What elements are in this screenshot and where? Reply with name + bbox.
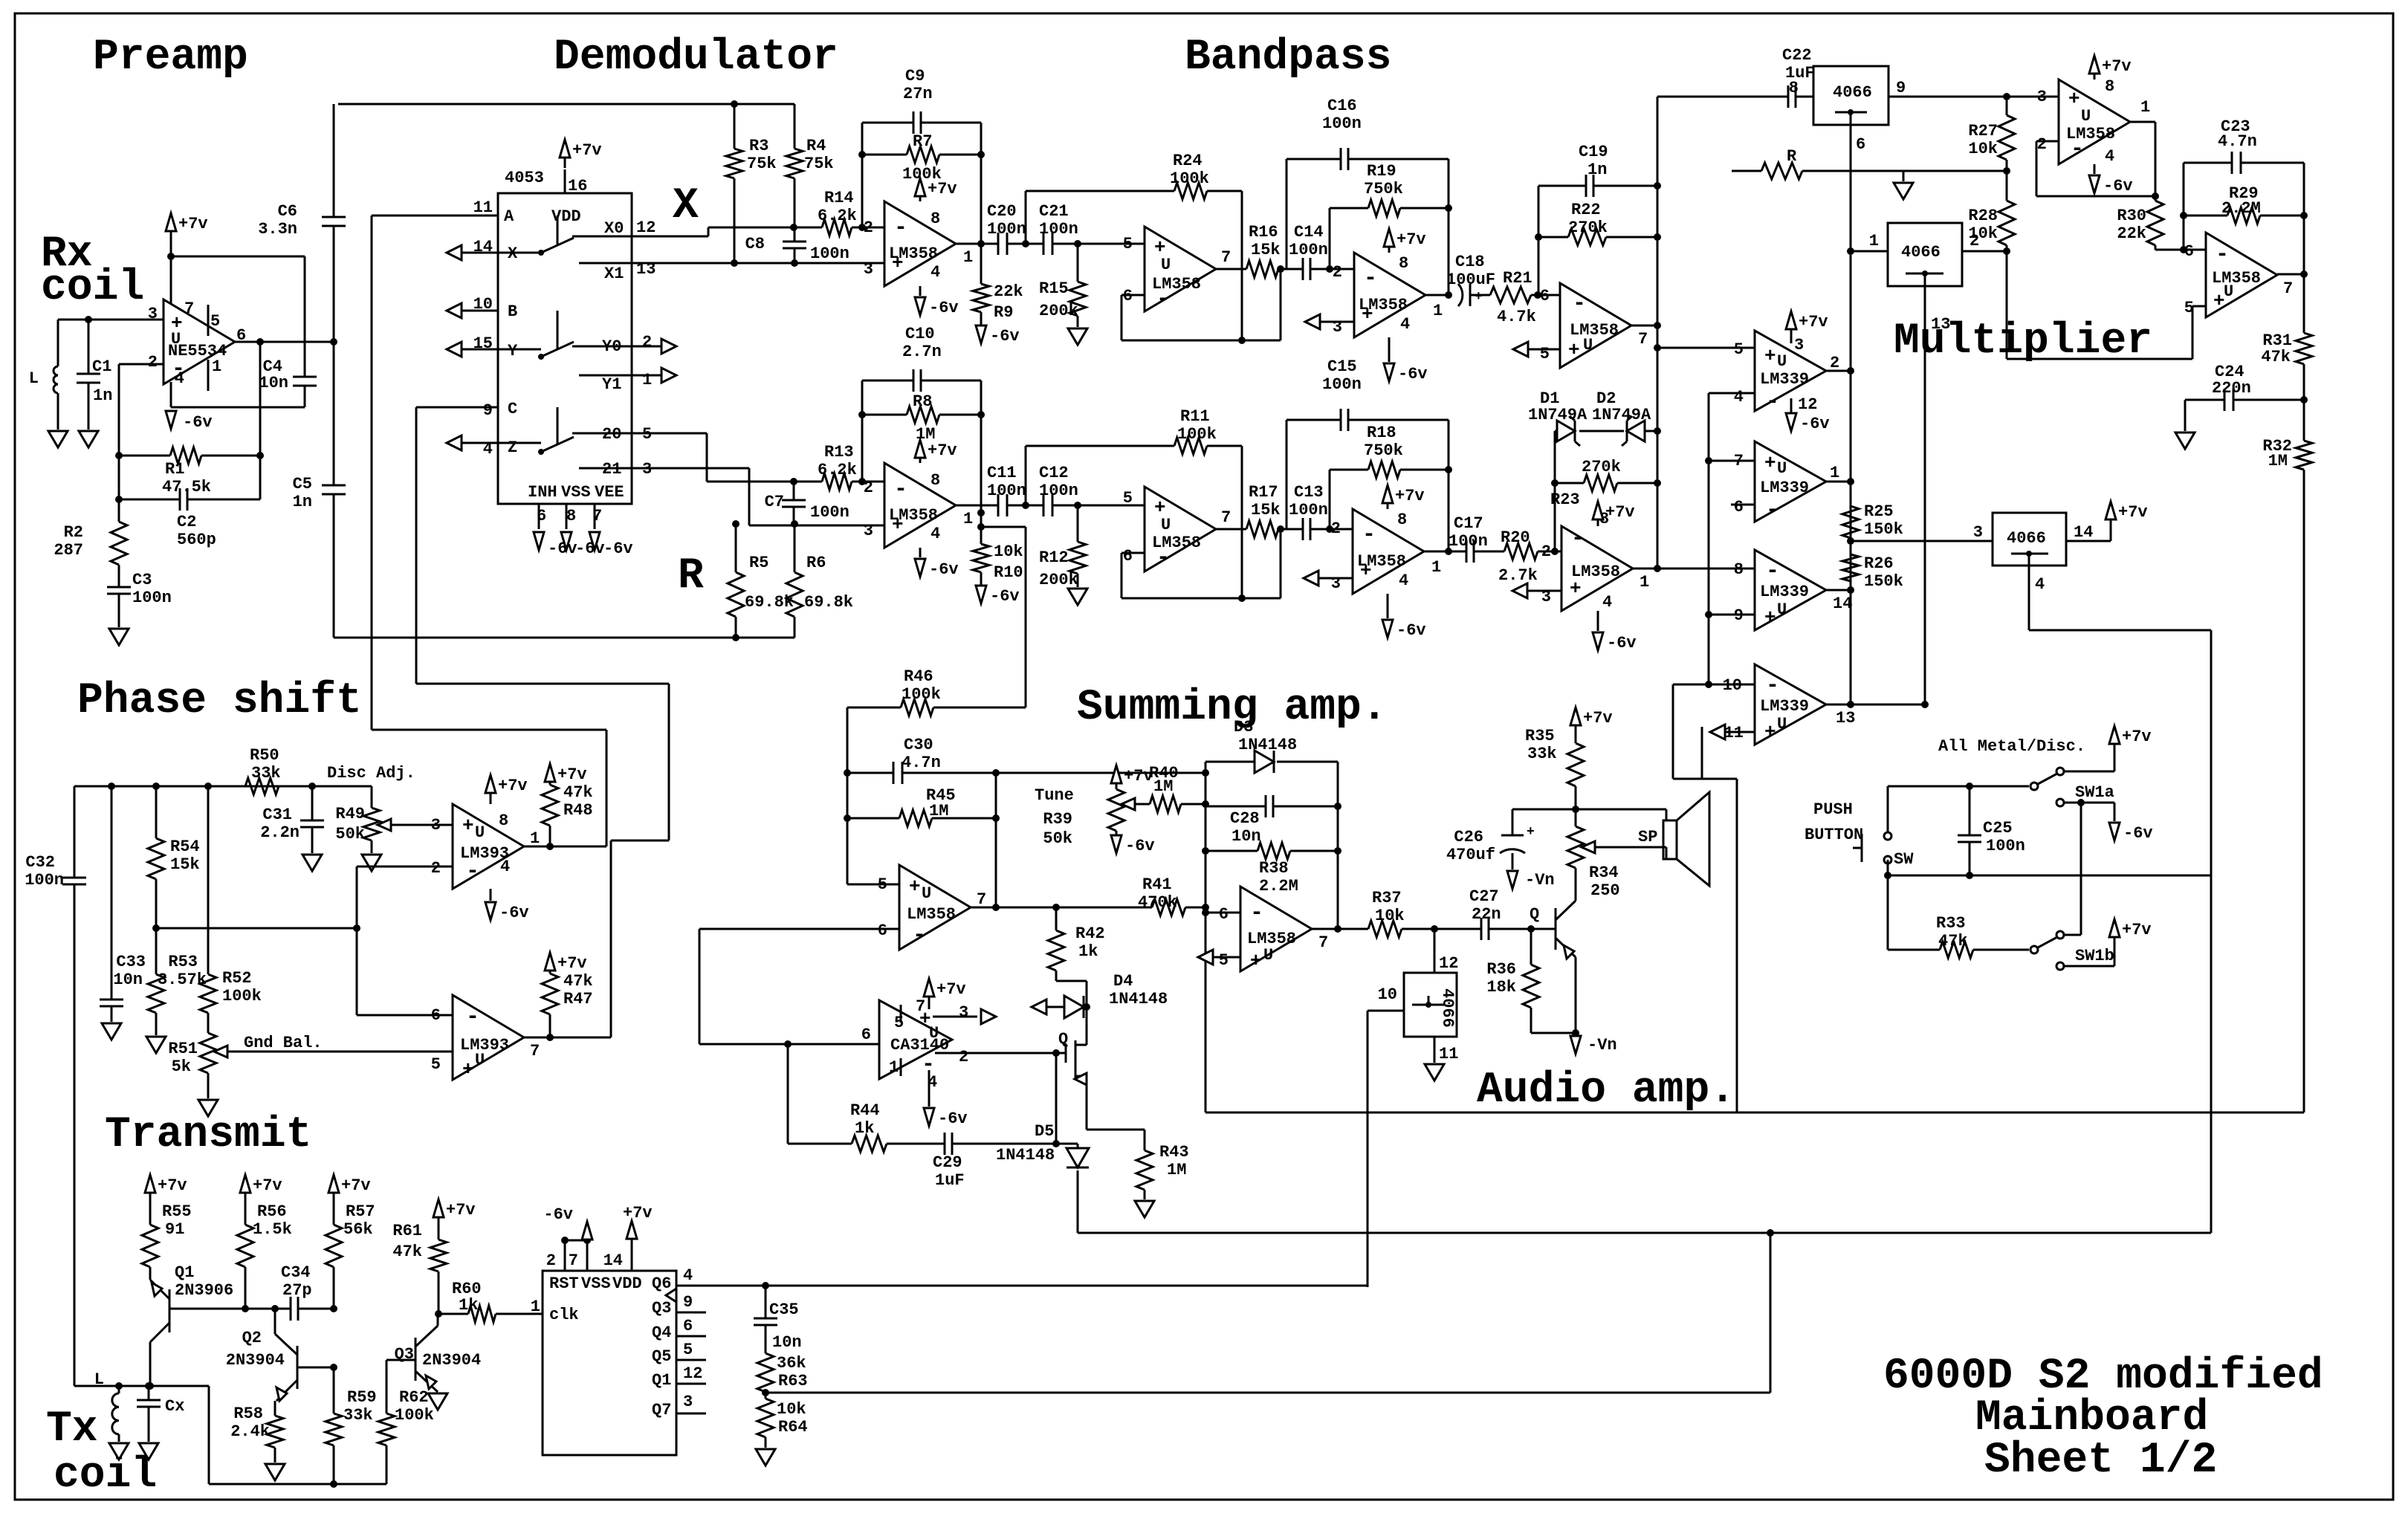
svg-text:U: U [475,823,485,842]
svg-text:+: + [1250,950,1262,972]
feedback right vertical X bandpass [1448,159,1450,295]
R39 wiper arrow [1122,798,1135,810]
feedback loop C15 100n [1286,420,1288,529]
svg-text:X: X [673,182,699,230]
4053 pin11 A wire [372,215,498,217]
svg-text:R48: R48 [563,801,593,820]
4066B pin1 wire [1851,250,1888,253]
pin12 -6v LM339 A [1790,398,1793,413]
svg-text:R49: R49 [335,805,365,823]
svg-text:1: 1 [1433,302,1443,320]
svg-text:U: U [1777,715,1787,733]
svg-text:47k: 47k [563,783,593,802]
svg-text:100n: 100n [1289,501,1328,519]
svg-text:100k: 100k [1177,425,1217,444]
capacitor C34 27p [290,1297,292,1321]
svg-text:C7: C7 [765,493,784,511]
svg-text:-: - [466,1005,479,1030]
wire top rail y140 [338,103,794,106]
svg-text:4: 4 [1734,388,1744,406]
pin11 net arrow LM339 D [1710,725,1725,739]
svg-text:R43: R43 [1159,1143,1189,1162]
resistor R8 1M [862,414,907,416]
svg-text:R52: R52 [222,969,252,988]
LM339 A output [1826,370,1851,372]
svg-text:C17: C17 [1454,514,1483,533]
svg-text:R62: R62 [399,1388,429,1407]
svg-text:1: 1 [963,248,973,267]
svg-text:33k: 33k [1527,745,1557,763]
svg-text:U: U [2081,107,2091,126]
svg-text:R18: R18 [1367,424,1396,442]
capacitor C26 470uf electrolytic [1512,809,1514,835]
resistor R47 47k [545,953,555,971]
svg-text:R9: R9 [994,303,1013,322]
4053 pin10 B arrow [447,303,462,318]
svg-text:-: - [913,923,926,948]
svg-text:L: L [29,369,39,388]
IC 4066 switch B [1888,223,1962,286]
svg-text:69.8k: 69.8k [745,593,794,612]
wire Rx input node [58,319,164,321]
resistor R46 100k [847,707,901,709]
svg-text:7: 7 [1638,330,1648,349]
pin8 +7v R bandpass2 [1597,520,1599,526]
svg-text:+: + [1764,721,1776,743]
svg-text:1M: 1M [916,425,935,444]
svg-text:100k: 100k [222,987,262,1005]
op-amp U7 LM358 R follower [1145,487,1216,571]
svg-text:1N4148: 1N4148 [1109,990,1168,1008]
pin6 stub LM339 B [1731,504,1755,506]
pin4 wire LM339 A [1709,392,1755,395]
svg-text:100n: 100n [1986,837,2025,855]
svg-text:9: 9 [483,401,493,420]
capacitor C22 1uF [1657,96,1788,98]
svg-text:22k: 22k [994,282,1023,301]
svg-text:U: U [1777,459,1787,478]
svg-text:-: - [466,859,479,884]
feedback right vertical C22 node [1657,97,1659,571]
capacitor C30 4.7n [847,707,849,884]
svg-text:6: 6 [861,1026,871,1044]
op-amp U9 LM358 R bandpass2 [1561,526,1633,611]
svg-text:27n: 27n [903,85,933,103]
svg-text:2.4k: 2.4k [230,1422,270,1441]
pin3 net arrow R bandpass2 [1512,583,1527,598]
capacitor C29 1uF [944,1133,946,1155]
capacitor C6 3.3n [333,104,335,217]
svg-text:VSS: VSS [581,1274,611,1293]
4066A pin6 control bus [1850,125,1852,704]
svg-text:4066: 4066 [1833,83,1872,102]
svg-text:-: - [1250,901,1263,926]
4053 pin9 C wire [416,406,498,409]
op-amp U18 LM358 summing [899,865,971,950]
svg-text:R15: R15 [1039,279,1069,298]
svg-text:VDD: VDD [551,207,581,226]
wire tap to summing R46 [981,526,1026,528]
svg-text:VSS: VSS [561,483,591,502]
svg-text:100n: 100n [1322,375,1362,394]
svg-text:8: 8 [566,507,576,525]
svg-text:6: 6 [1123,547,1133,566]
feedback right vertical [980,123,983,244]
svg-text:3: 3 [959,1003,968,1022]
wire D5 row to divider [1078,1232,2211,1234]
svg-text:4: 4 [2035,575,2045,594]
svg-text:D4: D4 [1113,972,1133,991]
svg-text:-6v: -6v [929,560,959,579]
ground below R64 [756,1449,775,1465]
svg-text:RST: RST [549,1274,579,1293]
svg-text:R4: R4 [806,137,826,155]
svg-text:All Metal/Disc.: All Metal/Disc. [1938,737,2085,756]
wire right vertical net [1701,727,1703,779]
svg-text:-6v: -6v [990,587,1020,606]
svg-text:D5: D5 [1035,1122,1054,1141]
svg-text:750k: 750k [1364,441,1403,460]
feedback loop C9 R7 [861,123,864,227]
svg-text:R5: R5 [749,554,768,572]
svg-text:-: - [1766,559,1779,584]
svg-text:560p: 560p [177,531,216,549]
svg-text:-Vn: -Vn [1587,1036,1617,1055]
wire 4053 pin11 control from LM393 A [371,216,373,730]
svg-text:2: 2 [1970,232,1979,250]
svg-text:C30: C30 [904,736,933,754]
svg-text:10: 10 [1378,985,1397,1004]
svg-text:100k: 100k [902,685,941,704]
wire 4053 pin9 control from LM393 B [415,407,418,684]
svg-text:6: 6 [683,1317,693,1335]
svg-text:R11: R11 [1180,407,1210,426]
feedback wire to output [259,342,262,499]
svg-text:LM358: LM358 [889,506,938,525]
svg-text:LM339: LM339 [1760,697,1809,716]
svg-text:R14: R14 [824,189,854,207]
output wire to C18 [1425,294,1449,297]
pin4 -6v X bandpass [1388,337,1391,362]
svg-text:R2: R2 [64,523,83,542]
pin6 feedback box [1122,294,1145,297]
svg-text:+: + [2068,88,2080,110]
svg-text:8: 8 [1789,79,1799,97]
svg-text:2: 2 [2037,135,2047,154]
4053 pin16 VDD stub [564,169,566,193]
comparator U17 LM393 B [453,995,524,1080]
svg-text:8: 8 [930,210,940,228]
wire SW bottom rail [1887,860,1889,875]
svg-text:Q5: Q5 [652,1347,671,1366]
svg-text:4: 4 [175,369,184,388]
svg-text:12: 12 [683,1364,702,1383]
svg-text:+7v: +7v [1605,503,1635,522]
pin10 wire LM339 D [1673,684,1755,686]
svg-text:47k: 47k [1938,932,1968,950]
comparator U12 LM339 A [1755,331,1826,411]
resistor R43 1M [1087,1129,1145,1131]
pin8 +7v multiplier A [2094,74,2096,80]
resistor R36 18k [1530,929,1532,965]
svg-text:R38: R38 [1259,859,1289,878]
svg-text:-: - [1766,498,1779,523]
svg-text:220n: 220n [2212,379,2251,398]
svg-text:Q3: Q3 [652,1299,671,1318]
svg-text:1N4148: 1N4148 [996,1146,1055,1164]
feedback right vertical R bandpass [1448,420,1450,551]
svg-text:4053: 4053 [505,169,544,187]
capacitor C27 22n [1480,918,1483,940]
svg-text:B: B [508,302,517,321]
4066D pin10 wire [1368,1010,1404,1012]
IC 4066 switch A [1813,66,1888,125]
resistor R57 56k [333,1193,335,1225]
svg-text:R17: R17 [1249,483,1278,502]
svg-text:Y1: Y1 [602,375,621,394]
pin8 +7v demod R [919,459,922,463]
+7v R61 [433,1199,444,1217]
svg-text:2N3904: 2N3904 [422,1351,481,1370]
pin2 output wire CA3140 [935,1052,1066,1055]
switch SW1b [2030,946,2038,953]
svg-text:6: 6 [878,921,887,940]
svg-text:Mainboard: Mainboard [1975,1394,2208,1442]
svg-text:C21: C21 [1039,202,1069,221]
pin2 to D5 vertical [1055,1053,1058,1144]
capacitor C18 100uF electrolytic [1458,284,1463,306]
pin6 wire summing [699,928,899,930]
ground below Cx [139,1443,158,1460]
svg-text:-: - [1156,287,1170,312]
svg-text:Q4: Q4 [652,1324,671,1342]
svg-text:1n: 1n [293,493,312,511]
IC 4053 analog switch [498,193,632,504]
svg-text:8: 8 [1397,511,1407,529]
svg-text:8: 8 [2105,77,2114,96]
svg-text:R53: R53 [168,953,198,971]
pin5 pin1 offset stubs NE5534 [207,305,210,336]
svg-text:C34: C34 [281,1263,311,1282]
svg-text:Gnd Bal.: Gnd Bal. [244,1034,323,1052]
supply rail to C4 [171,256,305,258]
svg-text:-Vn: -Vn [1525,871,1555,890]
svg-text:1k: 1k [855,1119,874,1138]
svg-text:10k: 10k [1968,140,1998,158]
pin6 wire CA3140 [699,1043,879,1046]
svg-text:3: 3 [864,260,873,279]
capacitor C8 100n [783,241,806,243]
svg-text:-6v: -6v [1800,415,1830,433]
output wire multiplier B [2277,273,2304,276]
svg-text:1M: 1M [1153,777,1173,796]
svg-text:8: 8 [499,812,508,830]
svg-text:10k: 10k [1375,907,1405,925]
svg-text:-6v: -6v [938,1110,968,1128]
pin10 net wire down [1672,684,1674,779]
svg-text:U: U [1263,946,1273,965]
LM339 B output [1826,481,1851,483]
ground below R15 [1068,328,1087,345]
svg-text:50k: 50k [1043,829,1072,848]
svg-text:12: 12 [1439,954,1458,973]
capacitor C2 560p [119,499,180,501]
svg-text:10n: 10n [772,1333,802,1352]
resistor R24 100k [1174,183,1207,199]
diode D2 1N749A [1579,430,1624,433]
wire R54 junction row [156,927,357,930]
svg-text:R19: R19 [1367,162,1396,181]
4053 pin15 Y arrow [447,342,462,357]
svg-text:5: 5 [894,1014,904,1032]
svg-text:R56: R56 [257,1202,287,1221]
4066B pin13 control [1924,286,1926,704]
svg-text:5: 5 [683,1341,693,1359]
svg-text:R26: R26 [1864,554,1894,573]
svg-text:C13: C13 [1294,483,1324,502]
svg-text:-: - [1766,673,1779,699]
svg-text:4: 4 [1602,593,1612,612]
svg-text:100uF: 100uF [1446,271,1495,289]
svg-text:10k: 10k [777,1400,806,1419]
-6v below R39 [1111,835,1122,853]
svg-text:C5: C5 [293,475,312,493]
svg-text:33k: 33k [251,764,281,783]
svg-text:LM358: LM358 [1357,552,1406,571]
svg-text:C8: C8 [745,235,765,253]
svg-text:R12: R12 [1039,548,1069,567]
svg-text:C2: C2 [177,513,196,531]
svg-text:R50: R50 [250,746,279,765]
resistor R42 1k [1055,907,1058,930]
svg-text:1.5k: 1.5k [253,1220,292,1239]
svg-text:LM339: LM339 [1760,479,1809,497]
svg-text:3: 3 [1794,336,1804,354]
capacitor C5 1n [333,342,335,485]
svg-text:+: + [909,875,921,898]
svg-text:4: 4 [1400,315,1410,334]
svg-text:R1: R1 [165,460,184,479]
svg-text:U: U [1161,516,1171,534]
svg-text:C3: C3 [132,571,152,589]
svg-text:15k: 15k [1251,501,1281,519]
4053 INH VSS VEE pin stubs [538,504,540,529]
svg-text:270k: 270k [1582,458,1621,476]
svg-text:LM358: LM358 [2212,269,2261,288]
pin14 +7v counter [631,1240,633,1271]
svg-text:R42: R42 [1075,924,1105,943]
ground below Q3 emitter [428,1393,447,1410]
-6v above counter [586,1235,589,1240]
svg-text:6.2k: 6.2k [818,207,857,225]
comparator U14 LM339 C [1755,550,1826,630]
svg-text:-: - [1571,526,1585,551]
R49 wiper arrow [378,819,391,831]
4066C pin4 control wire [2028,566,2030,630]
svg-text:3: 3 [683,1393,693,1411]
resistor R16 15k [1216,268,1246,271]
resistor R56 1.5k [245,1193,247,1225]
resistor R58 2.4k [267,1416,283,1448]
resistor R24 100k riser [1025,191,1027,244]
svg-text:47k: 47k [563,972,593,991]
svg-text:R23: R23 [1550,490,1580,509]
inductor L Tx coil [118,1386,120,1393]
svg-text:C32: C32 [25,853,55,872]
svg-text:1: 1 [642,371,652,389]
svg-text:-6v: -6v [575,540,605,558]
pin4 -6v LM393 A [490,889,492,901]
capacitor C7 100n [793,482,795,500]
switch SW1a [2030,783,2038,790]
capacitor Cx [148,1386,150,1400]
svg-text:U: U [475,1051,485,1069]
svg-text:3: 3 [431,816,441,835]
svg-text:100n: 100n [132,589,172,607]
capacitor C25 100n [1969,786,1971,835]
pin5 net arrow audio [1198,950,1213,965]
svg-text:R27: R27 [1968,122,1998,140]
svg-text:+7v: +7v [2122,728,2152,746]
svg-text:C35: C35 [769,1300,799,1319]
svg-text:2: 2 [148,353,158,372]
svg-text:15k: 15k [170,855,200,874]
svg-text:2: 2 [642,333,652,352]
output wire R to LM339 pin8 [1632,568,1755,570]
svg-text:1N749A: 1N749A [1592,406,1651,424]
ground below R12 [1068,589,1087,605]
svg-text:14: 14 [603,1251,623,1270]
svg-text:1M: 1M [1167,1161,1186,1179]
svg-text:12: 12 [1798,395,1817,414]
resistor R17 15k [1216,528,1246,531]
svg-text:R59: R59 [347,1388,377,1407]
pin4 -6v R bandpass2 [1597,611,1599,631]
svg-text:2: 2 [546,1251,556,1270]
4053 internal switch X [538,250,544,256]
4066C pin14 wire to +7v [2066,540,2111,542]
svg-text:+7v: +7v [253,1176,282,1195]
resistor R12 200k [1077,505,1079,542]
svg-text:A: A [504,207,514,226]
audio bottom rail [1205,1112,2304,1114]
svg-text:100n: 100n [1289,241,1328,259]
svg-text:14: 14 [2074,523,2093,542]
resistor R37 10k [1368,921,1402,937]
svg-text:4: 4 [930,263,940,282]
capacitor C4 10n [293,376,317,378]
svg-text:1n: 1n [1587,161,1607,179]
resistor R53 3.57k [148,974,164,1013]
ground below R51 [198,1100,218,1116]
svg-text:5: 5 [1219,951,1229,970]
svg-text:U: U [1777,352,1787,371]
resistor R27 10k [2006,97,2008,115]
svg-text:1: 1 [530,829,540,848]
svg-text:2: 2 [1333,263,1342,282]
svg-text:100n: 100n [25,871,64,890]
svg-text:12: 12 [636,218,656,237]
svg-text:+: + [1764,452,1776,474]
resistor R7 100k [862,154,907,156]
resistor R33 47k [1887,875,1889,950]
pin5 pin1 offset stubs [900,1005,902,1023]
svg-text:C6: C6 [278,202,297,221]
resistor R14 6.2k [822,219,852,236]
svg-text:16: 16 [568,177,587,195]
output wire X to comparators [1631,325,1657,327]
diode D4 1N4148 [1032,1000,1046,1014]
